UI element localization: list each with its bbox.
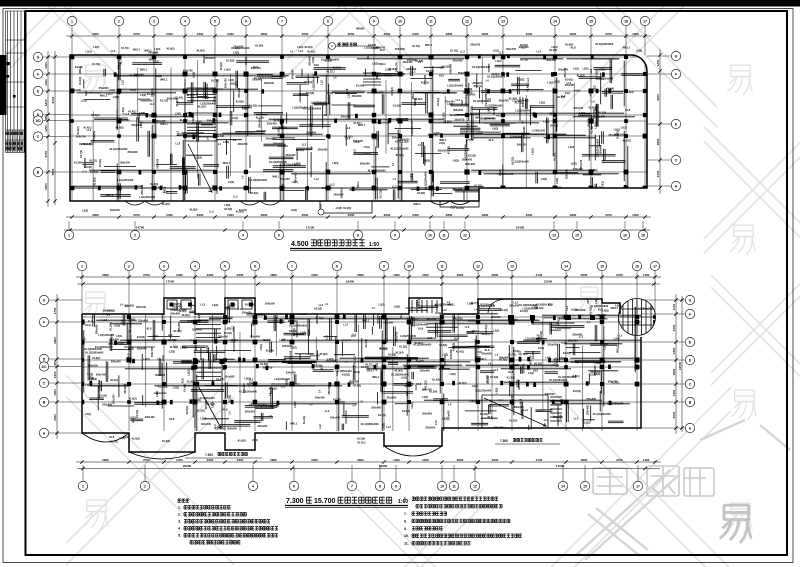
bottom plan: bottom bubbles: [78, 481, 87, 490]
svg-text:L5(1): L5(1): [584, 421, 590, 425]
svg-text:KL2(2): KL2(2): [432, 378, 440, 382]
svg-text:200x400: 200x400: [464, 95, 468, 105]
svg-text:KL5(3): KL5(3): [180, 118, 188, 122]
svg-text:L5(1): L5(1): [85, 323, 91, 327]
svg-text:KL1(2)300x600: KL1(2)300x600: [128, 314, 132, 332]
svg-text:2400: 2400: [176, 458, 183, 462]
svg-text:200x400: 200x400: [111, 360, 121, 364]
svg-text:1400: 1400: [672, 347, 676, 354]
svg-text:KL4(1): KL4(1): [244, 57, 248, 65]
svg-text:KL1(2)300x600: KL1(2)300x600: [595, 42, 613, 46]
svg-text:KL8: KL8: [520, 135, 525, 139]
svg-text:LL3: LL3: [163, 190, 168, 194]
svg-text:1900: 1900: [393, 458, 400, 462]
svg-text:2700: 2700: [616, 273, 623, 277]
svg-text:11.: 11.: [404, 542, 409, 546]
svg-text:KL5(3): KL5(3): [468, 154, 476, 158]
svg-text:L6(3): L6(3): [410, 402, 414, 408]
svg-text:2300: 2300: [207, 273, 214, 277]
bottom plan: right stair shaft + diagonal: [481, 395, 483, 428]
svg-text:250x450: 250x450: [192, 328, 202, 332]
svg-text:1700: 1700: [53, 307, 57, 314]
svg-text:L6(3): L6(3): [230, 82, 236, 86]
svg-text:L5(1): L5(1): [621, 126, 627, 130]
svg-text:2700: 2700: [143, 458, 150, 462]
watermark big logo bottom right: [593, 466, 714, 496]
svg-text:KL8: KL8: [565, 91, 570, 95]
svg-text:300x500: 300x500: [464, 77, 468, 87]
svg-text:18: 18: [641, 233, 645, 237]
svg-text:KL3(4): KL3(4): [626, 90, 634, 94]
svg-text:LL3: LL3: [435, 311, 440, 315]
svg-text:2: 2: [144, 484, 146, 488]
svg-text:300x500: 300x500: [131, 123, 141, 127]
svg-text:15.700: 15.700: [314, 498, 336, 505]
svg-text:KL1(2)300x600: KL1(2)300x600: [269, 160, 287, 164]
svg-text:300x500: 300x500: [519, 45, 529, 49]
svg-text:L3(2): L3(2): [82, 209, 88, 213]
svg-text:1500: 1500: [53, 389, 57, 396]
svg-text:KL2(2): KL2(2): [197, 408, 205, 412]
svg-text:250x600: 250x600: [256, 129, 266, 133]
svg-text:WKL1: WKL1: [404, 384, 412, 388]
svg-text:10: 10: [407, 264, 411, 268]
svg-text:KL7(1): KL7(1): [589, 88, 593, 96]
svg-text:L6(3): L6(3): [538, 346, 544, 350]
svg-text:LL3: LL3: [386, 425, 391, 429]
svg-text:11: 11: [429, 19, 433, 23]
svg-text:KL8: KL8: [120, 319, 124, 324]
svg-text:6: 6: [254, 264, 256, 268]
svg-text:16400: 16400: [516, 226, 525, 230]
top plan: left dimension: [47, 51, 49, 207]
svg-text:L5(1): L5(1): [123, 435, 129, 439]
svg-text:L6(3): L6(3): [602, 309, 608, 313]
watermark yi glyphs: [82, 65, 107, 95]
svg-text:300x700: 300x700: [112, 394, 116, 404]
svg-text:16: 16: [623, 233, 627, 237]
svg-text:200x400: 200x400: [403, 60, 413, 64]
svg-text:LL3: LL3: [82, 170, 87, 174]
svg-text:300x500: 300x500: [360, 162, 370, 166]
svg-text:L6(3): L6(3): [492, 127, 498, 131]
svg-text:LL2: LL2: [251, 321, 255, 326]
svg-text:KL3(4): KL3(4): [356, 83, 364, 87]
svg-text:KL5(3): KL5(3): [395, 368, 403, 372]
svg-text:KL6(2): KL6(2): [190, 207, 198, 211]
svg-text:10: 10: [398, 19, 402, 23]
svg-text:KL5(3): KL5(3): [266, 348, 274, 352]
svg-text:2800: 2800: [53, 337, 57, 344]
svg-text:L1(1)250x400: L1(1)250x400: [607, 402, 624, 406]
svg-text:L6(3): L6(3): [560, 356, 566, 360]
svg-text:4000: 4000: [526, 213, 533, 217]
svg-text:3600: 3600: [102, 273, 109, 277]
svg-text:250x450: 250x450: [423, 74, 427, 84]
svg-text:L1(1)250x400: L1(1)250x400: [292, 106, 309, 110]
svg-text:LL2: LL2: [319, 80, 323, 85]
svg-text:L2(2): L2(2): [385, 68, 391, 72]
svg-text:KL3(4): KL3(4): [436, 98, 440, 106]
svg-text:KL8: KL8: [416, 382, 421, 386]
svg-text:250x600: 250x600: [128, 150, 138, 154]
svg-text:250x600: 250x600: [422, 412, 432, 416]
svg-text:KL4(1): KL4(1): [157, 400, 165, 404]
bottom plan: bottom dimension: [76, 461, 661, 463]
svg-text:KL6(2): KL6(2): [92, 356, 100, 360]
svg-text:L2(2): L2(2): [422, 395, 428, 399]
svg-text:KL1(2)300x600: KL1(2)300x600: [473, 99, 491, 103]
svg-text:L1(1)250x400: L1(1)250x400: [199, 396, 216, 400]
svg-text:1/C: 1/C: [41, 365, 47, 369]
svg-text:WKL1: WKL1: [140, 67, 148, 71]
svg-text:L3(2): L3(2): [196, 120, 202, 124]
svg-text:300x700: 300x700: [136, 305, 146, 309]
svg-text:KL6(2): KL6(2): [92, 113, 100, 117]
bottom plan: left bubbles: [39, 295, 48, 304]
svg-text:LL2: LL2: [330, 182, 335, 186]
svg-text:WKL1: WKL1: [356, 181, 360, 189]
svg-text:LL3: LL3: [88, 319, 93, 323]
svg-text:KL1(2)300x600: KL1(2)300x600: [472, 65, 490, 69]
svg-text:L2(2): L2(2): [123, 384, 129, 388]
svg-text:KL8: KL8: [180, 378, 184, 383]
svg-text:KL7(1): KL7(1): [110, 439, 118, 443]
svg-text:KL2(2): KL2(2): [182, 313, 190, 317]
svg-text:WKL1: WKL1: [379, 62, 387, 66]
svg-text:250x450: 250x450: [310, 354, 320, 358]
svg-text:KL6(2): KL6(2): [129, 397, 137, 401]
svg-text:200x400: 200x400: [257, 424, 267, 428]
svg-text:KL6(2): KL6(2): [250, 191, 258, 195]
svg-text:KL7(1): KL7(1): [378, 413, 386, 417]
svg-text:13: 13: [552, 233, 556, 237]
svg-text:LL3: LL3: [111, 49, 116, 53]
svg-text:KL7(1): KL7(1): [79, 150, 83, 158]
svg-text:L6(3): L6(3): [424, 158, 430, 162]
svg-text:250x600: 250x600: [586, 397, 596, 401]
svg-text:KL7(1): KL7(1): [412, 44, 420, 48]
svg-text:L3(2): L3(2): [292, 180, 298, 184]
top plan: lower appendages: [125, 201, 479, 213]
svg-text:LL2: LL2: [494, 368, 499, 372]
svg-text:KL6(2): KL6(2): [149, 113, 157, 117]
svg-text:1400: 1400: [643, 273, 650, 277]
svg-text:300x700: 300x700: [454, 117, 464, 121]
svg-text:250x600: 250x600: [286, 370, 296, 374]
svg-text:KL4(1): KL4(1): [175, 95, 183, 99]
svg-text:L2(2): L2(2): [571, 162, 577, 166]
svg-text:250x600: 250x600: [327, 384, 331, 394]
svg-text:L2(2): L2(2): [156, 74, 162, 78]
svg-text:KL7(1): KL7(1): [474, 84, 482, 88]
top plan: labels below bottom edge: [82, 202, 464, 214]
svg-text:2800: 2800: [581, 273, 588, 277]
svg-text:KL8: KL8: [466, 123, 470, 128]
svg-text:LL3: LL3: [209, 210, 214, 214]
svg-text:200x400: 200x400: [499, 356, 509, 360]
svg-text:L3(2): L3(2): [493, 328, 499, 332]
svg-text:300x700: 300x700: [375, 46, 385, 50]
svg-text:2700: 2700: [133, 213, 140, 217]
svg-text:300x500: 300x500: [339, 188, 343, 198]
bottom plan: tower left A boxes: [167, 300, 177, 309]
svg-text:KL4(1): KL4(1): [128, 110, 136, 114]
svg-text:2: 2: [134, 233, 136, 237]
svg-text:KL8: KL8: [345, 88, 349, 93]
svg-text:KL5(3): KL5(3): [388, 353, 396, 357]
svg-text:300x500: 300x500: [224, 375, 234, 379]
svg-text:L6(3): L6(3): [467, 137, 473, 141]
svg-text:KL7(1): KL7(1): [571, 360, 579, 364]
top plan: axis bubbles top row: [67, 16, 76, 25]
svg-text:1: 1: [82, 484, 84, 488]
svg-text:L1(1)250x400: L1(1)250x400: [355, 151, 372, 155]
svg-text:17: 17: [653, 264, 657, 268]
svg-text:WKL1: WKL1: [160, 78, 168, 82]
notes left column: [178, 499, 189, 502]
svg-text:L6(3): L6(3): [86, 383, 92, 387]
svg-text:L3(2): L3(2): [494, 388, 498, 394]
svg-text:1200: 1200: [44, 125, 48, 132]
svg-text:2400: 2400: [227, 213, 234, 217]
svg-text:8: 8: [336, 264, 338, 268]
svg-text:200x400: 200x400: [308, 55, 312, 65]
svg-text:KL3(4): KL3(4): [147, 92, 155, 96]
svg-text:2000: 2000: [384, 213, 391, 217]
svg-text:KL7(1): KL7(1): [520, 58, 528, 62]
svg-text:250x450: 250x450: [547, 342, 557, 346]
svg-text:KL3(4): KL3(4): [333, 65, 341, 69]
svg-text:L3(2): L3(2): [379, 303, 385, 307]
svg-text:L5(1): L5(1): [364, 145, 370, 149]
top plan: labels above top edge: [86, 42, 643, 55]
svg-text:200x400: 200x400: [406, 67, 416, 71]
svg-text:L3(2): L3(2): [175, 112, 181, 116]
svg-text:250x600: 250x600: [110, 333, 114, 343]
svg-text:L2(2): L2(2): [532, 304, 538, 308]
svg-text:KL4(1): KL4(1): [364, 339, 368, 347]
svg-text:L5(1): L5(1): [232, 116, 238, 120]
svg-text:L2(2): L2(2): [212, 303, 218, 307]
top plan: top dimension line: [66, 35, 651, 37]
svg-text:250x450: 250x450: [544, 316, 554, 320]
svg-text:250x600: 250x600: [94, 324, 98, 334]
svg-text:8: 8: [357, 233, 359, 237]
svg-text:L3(2): L3(2): [224, 203, 230, 207]
svg-text:L3(2): L3(2): [93, 45, 99, 49]
svg-text:KL7(1): KL7(1): [474, 184, 482, 188]
svg-text:KL1(2)300x600: KL1(2)300x600: [450, 113, 468, 117]
svg-text:2100: 2100: [656, 170, 660, 177]
svg-text:14: 14: [553, 19, 557, 23]
svg-text:LL2: LL2: [450, 206, 455, 210]
svg-text:2400: 2400: [412, 213, 419, 217]
svg-text:250x600: 250x600: [371, 405, 381, 409]
svg-text:300x700: 300x700: [453, 317, 463, 321]
svg-text:L6(3): L6(3): [332, 161, 338, 165]
svg-text:17: 17: [636, 484, 640, 488]
svg-text:300x700: 300x700: [96, 372, 106, 376]
svg-text:KL6(2): KL6(2): [126, 353, 130, 361]
svg-text:L1(1)250x400: L1(1)250x400: [447, 83, 464, 87]
svg-text:300x500: 300x500: [264, 81, 274, 85]
svg-text:250x600: 250x600: [491, 315, 501, 319]
svg-text:KL6(2): KL6(2): [589, 105, 597, 109]
svg-text:KL8: KL8: [460, 100, 464, 105]
svg-text:7.300: 7.300: [500, 439, 508, 443]
svg-text:L6(3): L6(3): [636, 48, 642, 52]
svg-text:KL6(2): KL6(2): [238, 439, 246, 443]
svg-text:2400: 2400: [176, 273, 183, 277]
svg-text:2800: 2800: [570, 32, 577, 36]
top plan: interior grid/beams/columns/labels: [70, 0, 653, 201]
svg-text:KL6(2): KL6(2): [219, 62, 223, 70]
svg-text:KL4(1): KL4(1): [456, 206, 464, 210]
svg-text:12: 12: [463, 233, 467, 237]
svg-text:300x700: 300x700: [326, 359, 336, 363]
svg-text:LL2: LL2: [176, 141, 181, 145]
svg-text:KL1(2)300x600: KL1(2)300x600: [391, 373, 409, 377]
svg-text:250x450: 250x450: [281, 126, 285, 136]
svg-text:LL2: LL2: [120, 80, 124, 85]
svg-text:250x450: 250x450: [286, 153, 296, 157]
svg-text:KL5(3): KL5(3): [496, 113, 504, 117]
top plan: stair 2: [363, 73, 381, 85]
svg-text:2300: 2300: [197, 213, 204, 217]
svg-text:WKL1: WKL1: [479, 357, 487, 361]
svg-text:12: 12: [473, 484, 477, 488]
svg-text:LL2: LL2: [314, 177, 319, 181]
svg-text:3.: 3.: [178, 520, 181, 524]
svg-text:LL2: LL2: [173, 344, 178, 348]
svg-text:9: 9: [383, 264, 385, 268]
svg-text:KL8: KL8: [571, 46, 576, 50]
svg-text:15: 15: [583, 484, 587, 488]
svg-text:L3(2): L3(2): [539, 101, 545, 105]
svg-text:KL7(1): KL7(1): [119, 56, 123, 64]
svg-text:KL4(1): KL4(1): [110, 378, 118, 382]
svg-text:KL2(2): KL2(2): [162, 439, 170, 443]
svg-text:KL5(3): KL5(3): [175, 98, 179, 106]
svg-text:250x600: 250x600: [565, 83, 575, 87]
svg-text:1800: 1800: [672, 368, 676, 375]
svg-text:300x700: 300x700: [395, 331, 399, 341]
svg-text:1/D: 1/D: [35, 119, 41, 123]
svg-text:WKL1: WKL1: [616, 345, 620, 353]
svg-text:WKL1: WKL1: [290, 421, 298, 425]
svg-text:KL2(2): KL2(2): [509, 419, 517, 423]
svg-text:LL3: LL3: [523, 408, 528, 412]
svg-text:300x500: 300x500: [546, 58, 556, 62]
svg-text:L1(1)250x400: L1(1)250x400: [497, 172, 514, 176]
svg-text:L3(2): L3(2): [594, 122, 598, 128]
svg-text:KL6(2): KL6(2): [417, 191, 425, 195]
svg-text:L5(1): L5(1): [442, 416, 448, 420]
svg-text:2400: 2400: [53, 414, 57, 421]
svg-text:L5(1): L5(1): [599, 67, 605, 71]
svg-text:200x400: 200x400: [465, 162, 475, 166]
svg-text:LL2: LL2: [319, 303, 324, 307]
svg-text:2800: 2800: [482, 32, 489, 36]
svg-text:L6(3): L6(3): [297, 45, 303, 49]
svg-text:KL3(4): KL3(4): [337, 400, 345, 404]
svg-text:2700: 2700: [605, 213, 612, 217]
svg-text:WKL1: WKL1: [194, 342, 198, 350]
svg-text:300x500: 300x500: [290, 69, 294, 79]
svg-text:KL2(2): KL2(2): [353, 356, 357, 364]
svg-text:300x700: 300x700: [506, 47, 516, 51]
svg-text:KL5(3): KL5(3): [224, 207, 232, 211]
svg-text:L3(2): L3(2): [594, 361, 600, 365]
svg-text:KL7(1): KL7(1): [600, 342, 608, 346]
svg-text:KL5(3): KL5(3): [305, 45, 313, 49]
svg-text:200x400: 200x400: [155, 158, 159, 168]
svg-text:300x700: 300x700: [341, 114, 351, 118]
svg-text:L2(2): L2(2): [187, 369, 191, 375]
svg-text:8.: 8.: [404, 519, 407, 523]
svg-text:KL6(2): KL6(2): [586, 118, 590, 126]
svg-text:10: 10: [440, 484, 444, 488]
svg-text:2800: 2800: [457, 273, 464, 277]
svg-text:KL2(2): KL2(2): [459, 381, 467, 385]
svg-text:4: 4: [252, 484, 254, 488]
svg-text:KL1(2)300x600: KL1(2)300x600: [289, 323, 307, 327]
svg-text:3600: 3600: [102, 458, 109, 462]
svg-text:L3(2): L3(2): [543, 119, 549, 123]
svg-text:300x500: 300x500: [201, 422, 211, 426]
svg-text:KL2(2): KL2(2): [324, 59, 332, 63]
svg-text:3500: 3500: [348, 213, 355, 217]
svg-text:KL1(2)300x600: KL1(2)300x600: [435, 302, 453, 306]
svg-text:G: G: [43, 298, 46, 302]
svg-text:300x500: 300x500: [352, 94, 362, 98]
svg-text:L2(2): L2(2): [442, 353, 448, 357]
svg-text:L3(2): L3(2): [467, 302, 473, 306]
svg-text:KL4(1): KL4(1): [557, 95, 565, 99]
svg-text:L6(3): L6(3): [114, 324, 120, 328]
svg-text:L3(2): L3(2): [153, 59, 159, 63]
svg-text:300x700: 300x700: [183, 69, 193, 73]
svg-text:LL3: LL3: [176, 130, 180, 135]
svg-text:1300: 1300: [53, 371, 57, 378]
svg-text:LL2: LL2: [168, 333, 173, 337]
svg-text:L3(2): L3(2): [169, 349, 175, 353]
svg-text:250x600: 250x600: [99, 86, 109, 90]
svg-text:3400: 3400: [311, 273, 318, 277]
svg-text:KL4(1): KL4(1): [482, 332, 490, 336]
svg-text:L3(2): L3(2): [140, 93, 146, 97]
svg-text:KL1(2)300x600: KL1(2)300x600: [239, 390, 257, 394]
svg-text:KL4(1): KL4(1): [182, 384, 186, 392]
svg-text:200x400: 200x400: [207, 119, 217, 123]
svg-text:7: 7: [351, 484, 353, 488]
svg-text:200x400: 200x400: [425, 426, 435, 430]
svg-text:KL8: KL8: [454, 336, 459, 340]
svg-text:L1(1)250x400: L1(1)250x400: [555, 326, 572, 330]
svg-text:WKL1: WKL1: [78, 66, 82, 74]
svg-text:LL2: LL2: [299, 49, 304, 53]
svg-text:21200: 21200: [544, 280, 553, 284]
svg-text:300x700: 300x700: [150, 347, 154, 357]
svg-text:200x400: 200x400: [330, 416, 340, 420]
svg-text:L5(1): L5(1): [85, 412, 91, 416]
svg-text:2500: 2500: [422, 273, 429, 277]
svg-text:KL8: KL8: [147, 326, 152, 330]
svg-text:1300: 1300: [44, 62, 48, 69]
svg-text:5: 5: [214, 19, 216, 23]
bottom plan: right bubbles: [685, 295, 694, 304]
